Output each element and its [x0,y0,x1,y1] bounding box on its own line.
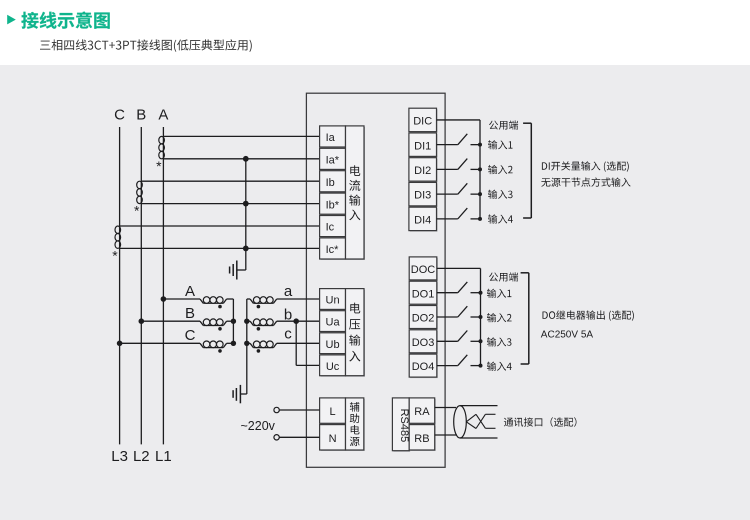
svg-text:Ia*: Ia* [326,154,340,166]
svg-text:Ic: Ic [326,222,335,234]
svg-text:L: L [329,406,335,418]
svg-text:L2: L2 [133,448,150,465]
svg-text:Un: Un [326,295,340,307]
svg-text:Ub: Ub [326,339,340,351]
svg-text:~220v: ~220v [241,419,276,433]
svg-text:DOC: DOC [411,264,436,276]
svg-text:B: B [136,107,146,124]
svg-text:RS485: RS485 [398,409,410,443]
svg-text:DI1: DI1 [414,140,431,152]
svg-text:Ic*: Ic* [326,244,340,256]
svg-text:A: A [185,283,195,300]
svg-text:L1: L1 [155,448,172,465]
svg-text:RB: RB [414,433,429,445]
svg-text:DI3: DI3 [414,190,431,202]
svg-text:DO1: DO1 [412,288,435,300]
svg-text:Ib*: Ib* [326,199,340,211]
svg-text:A: A [158,107,168,124]
svg-text:DO3: DO3 [412,337,435,349]
svg-text:N: N [329,433,337,445]
svg-text:C: C [114,107,125,124]
svg-text:Uc: Uc [326,361,340,373]
svg-text:DO2: DO2 [412,313,435,325]
svg-text:DO4: DO4 [412,361,435,373]
svg-text:DI4: DI4 [414,214,431,226]
svg-text:Ia: Ia [326,132,336,144]
svg-text:c: c [284,326,292,343]
svg-text:RA: RA [414,406,430,418]
svg-text:b: b [284,306,292,323]
svg-text:DI2: DI2 [414,165,431,177]
svg-text:*: * [112,247,118,263]
svg-text:AC250V 5A: AC250V 5A [541,329,594,340]
svg-text:a: a [284,283,293,300]
svg-text:Ib: Ib [326,177,335,189]
svg-text:Ua: Ua [326,317,341,329]
svg-text:L3: L3 [111,448,128,465]
svg-text:C: C [185,327,196,344]
svg-text:*: * [134,203,140,219]
svg-text:B: B [185,305,195,322]
svg-text:*: * [156,158,162,174]
svg-text:DIC: DIC [413,116,432,128]
